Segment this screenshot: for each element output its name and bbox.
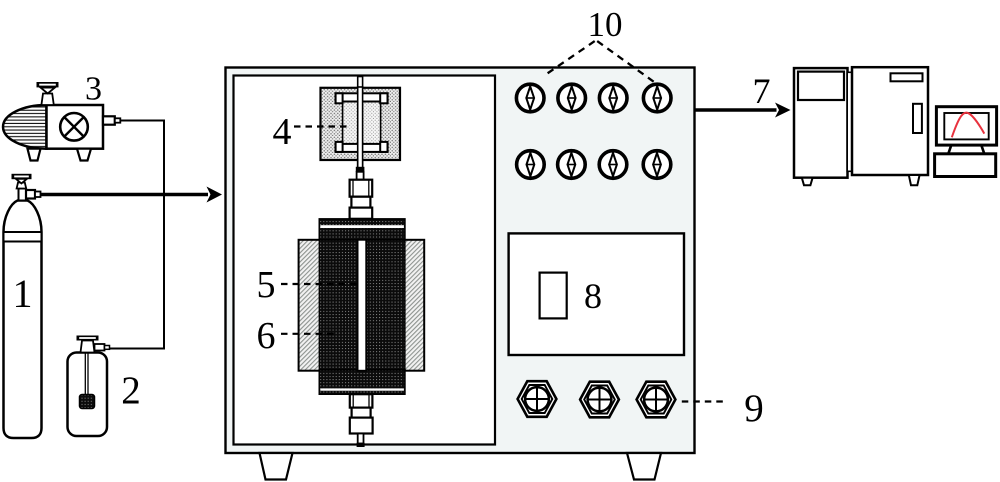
GC right handle [913, 104, 922, 133]
GC left foot [802, 178, 813, 186]
knob 9 b [580, 382, 619, 418]
pump 3 body [47, 105, 104, 149]
svg-text:6: 6 [257, 315, 276, 357]
GC left cabinet [794, 68, 848, 178]
control cabinet box [226, 68, 695, 454]
GC right cabinet [852, 67, 928, 175]
pump 3 motor end [3, 105, 46, 149]
bottom fitting stem [358, 434, 364, 444]
svg-text:2: 2 [121, 369, 141, 412]
flow meter row2 b [558, 151, 586, 179]
cylinder valve handwheel [12, 174, 32, 179]
top fitting nut upper [350, 180, 373, 197]
bottle cap stem [81, 341, 95, 353]
monitor [936, 107, 996, 145]
cylinder valve funnel [16, 179, 27, 184]
svg-text:8: 8 [584, 276, 602, 316]
GC left window [798, 72, 844, 100]
gas cylinder 1 body [4, 201, 42, 439]
inner reactor compartment [234, 76, 496, 445]
flow meter row1 d [643, 84, 671, 112]
leader 5 [281, 283, 357, 285]
top fitting collet [356, 167, 365, 172]
cylinder collar band [4, 232, 42, 242]
top fitting stem [357, 172, 364, 180]
svg-text:9: 9 [744, 387, 764, 430]
bottle dip tube [84, 353, 86, 395]
reactor tube 5 [358, 240, 367, 371]
GC right top vent [891, 73, 923, 81]
cylinder valve body [19, 189, 27, 201]
pump right foot [77, 149, 91, 161]
svg-text:1: 1 [13, 271, 33, 316]
pump left foot [28, 149, 41, 161]
flow meter row1 c [599, 84, 627, 112]
feed arrow into cabinet [41, 193, 209, 197]
leader 4 [294, 125, 351, 127]
pump valve handwheel [37, 82, 59, 87]
top fitting nut middle [351, 197, 370, 208]
leader 10 left [547, 41, 594, 73]
leader 6 [281, 333, 336, 335]
furnace bottom cap [319, 370, 405, 394]
pump valve stem [41, 94, 53, 106]
svg-text:4: 4 [273, 111, 292, 153]
flow meter row2 d [643, 151, 671, 179]
pump outlet nozzle [103, 116, 115, 124]
bottom fitting nut middle [352, 408, 371, 418]
bottle frit plug [80, 395, 95, 409]
knob 9 a [518, 381, 557, 417]
bottle handwheel [77, 336, 99, 341]
bottle nozzle [95, 344, 105, 351]
pump 3 impeller circle [60, 113, 88, 141]
bottom fitting tip [357, 443, 365, 447]
monitor stand [948, 145, 984, 154]
furnace heating body [319, 240, 405, 371]
flow meter row1 b [558, 84, 586, 112]
cylinder valve nozzle tip [35, 192, 41, 198]
pump valve funnel [41, 88, 55, 94]
leader 9 [682, 400, 723, 402]
furnace 6 shell [299, 240, 425, 371]
clamp 4 housing [321, 88, 401, 160]
GC connector [847, 72, 852, 171]
cabinet left foot [260, 453, 293, 480]
clamp 4 bottom bar [336, 144, 388, 152]
flow meter row1 a [516, 84, 544, 112]
bottom fitting nut upper [350, 394, 373, 407]
clamp 4 top bar [336, 93, 388, 101]
top fitting nut lower [350, 208, 373, 219]
knob 9 c [637, 382, 676, 418]
bubbler bottle 2 body [68, 353, 108, 437]
flow meter row2 c [599, 151, 627, 179]
monitor screen [944, 113, 988, 139]
furnace top cap [319, 219, 405, 240]
cylinder valve stem [17, 183, 27, 189]
svg-text:3: 3 [85, 71, 102, 108]
outlet arrow 7 [695, 108, 777, 112]
bottom fitting nut lower [350, 418, 373, 434]
svg-text:5: 5 [257, 264, 276, 306]
stirrer rod upper [358, 77, 363, 168]
svg-text:10: 10 [588, 5, 623, 44]
controller panel 8 [509, 233, 684, 355]
cylinder valve nozzle [26, 190, 35, 199]
leader 10 right [597, 41, 654, 82]
computer base [935, 154, 996, 177]
stirrer rod through clamp [358, 87, 363, 168]
cabinet right foot [627, 453, 661, 480]
pump to bottle line [109, 121, 164, 349]
GC right foot [909, 175, 920, 185]
flow meter row2 a [517, 151, 545, 179]
clamp 4 inner window [343, 101, 381, 144]
controller display [540, 273, 567, 319]
chromatogram peak [952, 113, 985, 138]
svg-text:7: 7 [753, 71, 771, 111]
